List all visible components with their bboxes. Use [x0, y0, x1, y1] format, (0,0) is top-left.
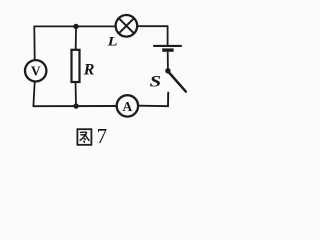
voltmeter V [25, 60, 46, 81]
lamp L [116, 15, 138, 37]
svg-text:V: V [31, 64, 41, 79]
wire: switch fixed-contact stub [167, 93, 169, 107]
resistor R [72, 50, 80, 82]
battery: long plate (positive) [153, 45, 182, 47]
wire: left vertical upper (corner to voltmeter) [33, 26, 35, 59]
wire: top-left horizontal (corner to lamp) [34, 25, 115, 27]
label S [150, 73, 162, 90]
wire: bottom horizontal left (corner to ammeter) [33, 105, 116, 107]
wire: battery to switch pivot [167, 52, 169, 69]
svg-text:A: A [123, 99, 133, 114]
svg-text:7: 7 [97, 124, 108, 148]
caption: character 图 (drawn) [77, 129, 91, 145]
battery: short thick plate (negative) [162, 48, 173, 51]
svg-text:L: L [106, 35, 117, 49]
svg-text:R: R [83, 61, 95, 78]
node: bottom junction [73, 103, 78, 108]
label L [106, 35, 117, 49]
ammeter A [117, 95, 138, 116]
wire: junction to resistor [75, 26, 77, 50]
node: top junction [73, 24, 78, 29]
svg-text:S: S [150, 73, 162, 90]
wire: bottom horizontal right (ammeter to corner) [139, 105, 168, 108]
wire: resistor to bottom junction [75, 82, 78, 106]
switch S pivot node [165, 68, 170, 73]
switch S blade (open) [169, 72, 186, 92]
wire: right vertical (corner to battery) [167, 26, 169, 45]
wire: lamp to top-right corner [137, 25, 167, 27]
wire: left vertical lower (voltmeter to bottom corner) [33, 82, 34, 106]
